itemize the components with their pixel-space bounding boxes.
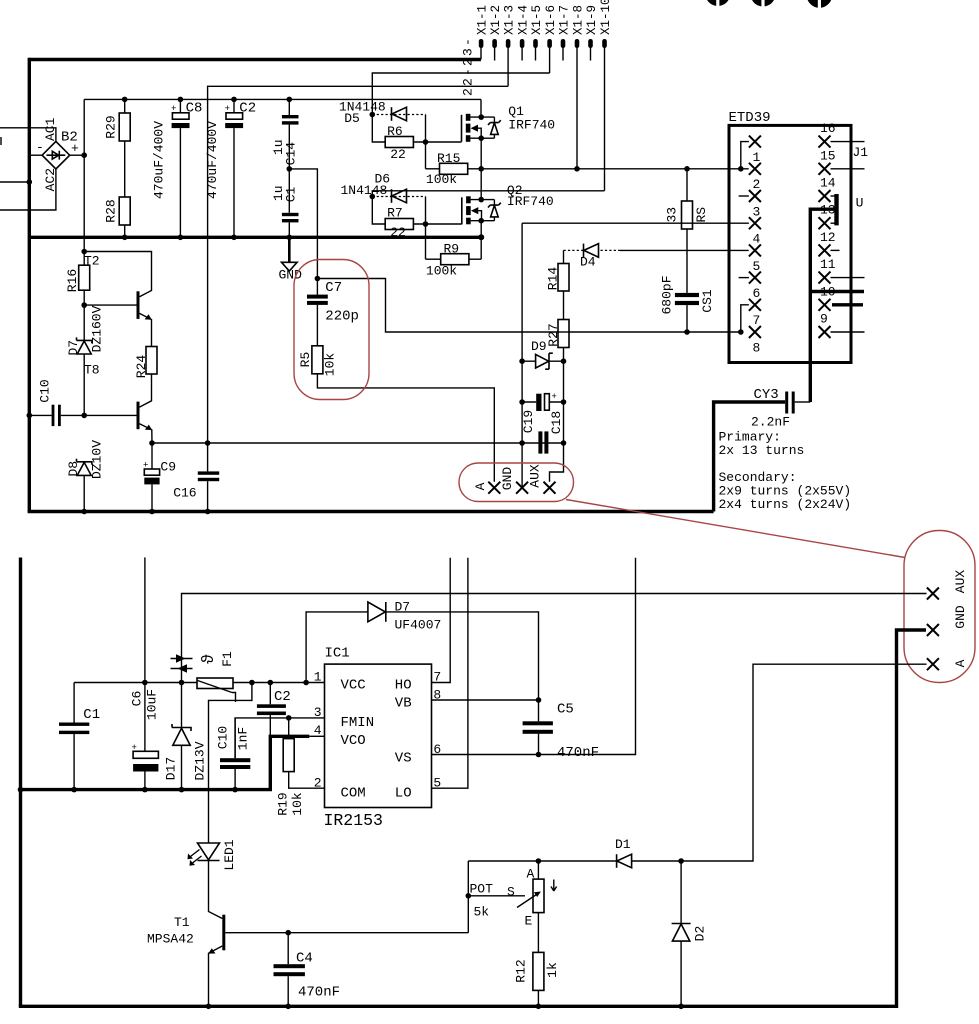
capacitor C19 bbox=[538, 431, 548, 453]
node: D8 bottom on border bbox=[81, 509, 87, 515]
node: R6 right gate node bbox=[423, 139, 429, 145]
wire: dotted D5 row bbox=[372, 114, 425, 116]
resistor R6 bbox=[385, 137, 413, 148]
capacitor C5 bbox=[523, 700, 553, 755]
svg-text:C14: C14 bbox=[283, 142, 298, 166]
pin AUX (top section) bbox=[544, 482, 556, 494]
zener diode D8 DZ10V bbox=[77, 459, 92, 512]
transformer secondary pin 14 bbox=[819, 190, 837, 202]
node: C6 top bbox=[142, 680, 148, 686]
svg-text:8: 8 bbox=[753, 340, 761, 355]
svg-text:R5: R5 bbox=[298, 352, 313, 368]
node: C14/C1 midpoint bbox=[287, 166, 293, 172]
wire: left input to border junction bbox=[0, 181, 29, 183]
transformer pin 5 bbox=[749, 244, 761, 256]
svg-text:VS: VS bbox=[395, 751, 412, 767]
wire: pin 4 to X1-4 net bbox=[522, 222, 749, 224]
svg-text:DZ13V: DZ13V bbox=[192, 741, 207, 780]
svg-text:R9: R9 bbox=[444, 242, 460, 257]
pin X1-1 bbox=[479, 39, 484, 48]
resistor RS bbox=[682, 169, 693, 293]
wire: thick GND output from center tap bbox=[810, 290, 864, 293]
node: C18 left bbox=[519, 399, 525, 405]
transformer secondary pin 9 bbox=[819, 326, 865, 338]
pin X1-7 bbox=[561, 39, 566, 48]
svg-text:U: U bbox=[856, 196, 864, 211]
svg-text:AC2: AC2 bbox=[43, 168, 58, 191]
svg-text:R16: R16 bbox=[65, 269, 80, 292]
svg-text:X1-2: X1-2 bbox=[489, 5, 503, 35]
svg-text:C5: C5 bbox=[557, 702, 574, 718]
node: D9 right bbox=[561, 358, 567, 364]
capacitor C10 1nF bbox=[220, 718, 250, 790]
capacitor C4 bbox=[274, 933, 305, 1007]
svg-text:F1: F1 bbox=[220, 651, 235, 667]
svg-text:AUX: AUX bbox=[527, 464, 542, 488]
svg-text:DZ10V: DZ10V bbox=[89, 440, 104, 479]
svg-text:D5: D5 bbox=[344, 111, 360, 126]
wire: T2 branch from B2+ vertical bbox=[81, 249, 87, 255]
svg-text:2x4 turns (2x24V): 2x4 turns (2x24V) bbox=[719, 497, 852, 512]
wire: dotted D6 row bbox=[372, 196, 425, 198]
transformer secondary pin 10 bbox=[819, 299, 864, 311]
svg-text:3: 3 bbox=[314, 705, 322, 720]
wire: pot wiper S bbox=[468, 895, 525, 897]
node: T8 emitter row left bbox=[149, 440, 155, 446]
svg-text:C2: C2 bbox=[239, 101, 256, 117]
decorative cut-off icon 3 bbox=[807, 0, 833, 8]
transformer pin 6 stub bbox=[739, 272, 761, 284]
node: C8 bottom on bus bbox=[178, 235, 184, 241]
node: R12 bottom on border bbox=[536, 1004, 542, 1010]
node: R15 right on half-bridge bbox=[478, 166, 484, 172]
svg-text:D7: D7 bbox=[66, 340, 81, 356]
node: D7 anode junction bbox=[303, 680, 309, 686]
svg-text:33: 33 bbox=[664, 207, 679, 223]
svg-text:ETD39: ETD39 bbox=[729, 110, 771, 126]
node: Q2 source bbox=[478, 218, 484, 224]
svg-text:D1: D1 bbox=[615, 837, 631, 852]
wire: AC2 input from left edge bbox=[0, 169, 56, 210]
diode D1 bbox=[617, 854, 682, 868]
svg-text:X1-1: X1-1 bbox=[476, 5, 490, 35]
pin A (top section) bbox=[488, 482, 500, 494]
transistor Q1 IRF740 bbox=[462, 114, 501, 142]
node: C1 bottom on bus bbox=[287, 235, 293, 241]
svg-text:+: + bbox=[171, 104, 176, 114]
capacitor C16 bbox=[198, 443, 219, 512]
wire: LED feed bbox=[209, 683, 252, 844]
svg-text:D9: D9 bbox=[531, 339, 547, 354]
capacitor C8 electrolytic bbox=[171, 99, 190, 237]
node: D17 bottom on bus bbox=[179, 787, 185, 793]
svg-text:GND: GND bbox=[953, 605, 968, 629]
svg-text:D17: D17 bbox=[164, 757, 179, 780]
node: Q2 source on bus bbox=[478, 234, 484, 240]
node: pin7/8 junction bbox=[738, 329, 744, 335]
wire: VCC rail bbox=[74, 682, 324, 684]
wire: C7 node to pin7/8 rail jog bbox=[317, 279, 740, 333]
node: R16 bottom base node bbox=[81, 302, 87, 308]
svg-text:10uF: 10uF bbox=[145, 689, 160, 720]
node: C8 top bbox=[178, 97, 184, 103]
resistor R14 bbox=[558, 250, 569, 319]
svg-text:2x 13 turns: 2x 13 turns bbox=[719, 443, 805, 458]
svg-text:220p: 220p bbox=[325, 309, 359, 325]
svg-text:R24: R24 bbox=[134, 355, 149, 379]
svg-text:1: 1 bbox=[314, 670, 322, 685]
node: RS top on mid rail bbox=[684, 166, 690, 172]
diode D2 bbox=[672, 861, 691, 1006]
node: D9 left bbox=[519, 358, 525, 364]
pin X1-10 bbox=[602, 39, 607, 48]
svg-text:1: 1 bbox=[753, 150, 761, 165]
wire: R6 right to junction and Q1 gate bbox=[413, 141, 461, 143]
node: AC line input stub tick bbox=[0, 137, 2, 145]
svg-text:X1-5: X1-5 bbox=[530, 5, 544, 35]
transformer secondary pin 15 bbox=[819, 163, 865, 175]
svg-text:CY3: CY3 bbox=[754, 387, 779, 403]
svg-text:22: 22 bbox=[390, 147, 406, 162]
pin GND (bottom connector) bbox=[927, 624, 939, 636]
wire: center tap thick bar pins 13/14 bbox=[834, 194, 838, 225]
node: Q1 source bbox=[478, 135, 484, 141]
svg-text:LED1: LED1 bbox=[222, 839, 237, 870]
wire: C18 aux vertical bbox=[563, 361, 565, 443]
resistor R19 bbox=[283, 718, 324, 788]
node: C9 bottom on border bbox=[149, 509, 155, 515]
node: D17 top junction bbox=[179, 680, 185, 686]
svg-text:POT: POT bbox=[470, 882, 494, 897]
node: C7 top junction bbox=[315, 276, 321, 282]
svg-text:R14: R14 bbox=[545, 267, 560, 291]
capacitor C18 electrolytic bbox=[522, 392, 563, 411]
node: pot S junction bbox=[466, 893, 472, 899]
svg-text:X1-3: X1-3 bbox=[503, 5, 517, 35]
svg-text:11: 11 bbox=[820, 257, 836, 272]
svg-text:IC1: IC1 bbox=[325, 646, 350, 662]
svg-text:1nF: 1nF bbox=[235, 727, 250, 750]
transformer secondary pin 13 bbox=[819, 217, 837, 229]
node: C16 bottom on border bbox=[205, 509, 211, 515]
svg-text:+: + bbox=[552, 392, 557, 402]
node: C2 bottom on bus bbox=[231, 235, 237, 241]
capacitor C6 electrolytic bbox=[132, 683, 159, 790]
svg-text:AUX: AUX bbox=[953, 570, 968, 594]
svg-text:X1-9: X1-9 bbox=[585, 5, 599, 35]
pin X1-2 bbox=[492, 39, 497, 48]
node: VB junction bbox=[536, 697, 542, 703]
wire: AC1 input from left edge bbox=[0, 128, 56, 142]
capacitor C10 bbox=[29, 405, 84, 426]
diode D7 UF4007 bbox=[368, 602, 386, 622]
wire: B2 minus to left border bbox=[29, 154, 42, 156]
svg-text:2.2nF: 2.2nF bbox=[751, 415, 790, 430]
node: R19 top junction bbox=[286, 715, 292, 721]
svg-text:C1: C1 bbox=[283, 187, 298, 203]
svg-text:X1-8: X1-8 bbox=[572, 5, 586, 35]
svg-text:C16: C16 bbox=[173, 486, 196, 501]
svg-text:VB: VB bbox=[395, 696, 412, 712]
wire: D5 left vertical to R6 bbox=[372, 115, 385, 143]
svg-text:X1-6: X1-6 bbox=[544, 5, 558, 35]
svg-text:VCC: VCC bbox=[341, 678, 366, 694]
svg-text:ϑ: ϑ bbox=[200, 654, 219, 664]
svg-text:R6: R6 bbox=[387, 124, 403, 139]
svg-text:1N4148: 1N4148 bbox=[341, 183, 388, 198]
node: Q2 drain bbox=[478, 197, 484, 203]
svg-text:A: A bbox=[953, 659, 968, 667]
svg-text:X1-10: X1-10 bbox=[599, 0, 613, 35]
transformer primary pin 2 bbox=[749, 163, 761, 175]
transformer ETD39 box bbox=[729, 125, 851, 362]
svg-text:12: 12 bbox=[820, 230, 836, 245]
svg-text:4: 4 bbox=[753, 232, 761, 247]
node: C10 right junction bbox=[81, 413, 87, 419]
wire: base node to T2 base bbox=[84, 304, 136, 306]
svg-text:470nF: 470nF bbox=[557, 745, 599, 761]
resistor R9 bbox=[426, 254, 482, 265]
resistor R28 bbox=[119, 197, 130, 237]
svg-text:100k: 100k bbox=[426, 264, 457, 279]
svg-text:UF4007: UF4007 bbox=[395, 618, 442, 633]
connector mating arrows bbox=[171, 654, 193, 673]
transformer pin 7 bbox=[741, 299, 761, 332]
svg-text:2: 2 bbox=[753, 177, 761, 192]
svg-text:15: 15 bbox=[820, 148, 836, 163]
svg-text:R27: R27 bbox=[546, 323, 561, 346]
svg-text:9: 9 bbox=[820, 312, 828, 327]
svg-text:RS: RS bbox=[694, 207, 709, 223]
wire: top section thick +HV top bus bbox=[29, 58, 481, 61]
ground symbol GND bbox=[282, 238, 298, 271]
wire: half-bridge mid rail to transformer bbox=[481, 168, 749, 170]
svg-text:R12: R12 bbox=[513, 959, 528, 982]
zener diode D17 DZ13V bbox=[172, 683, 191, 790]
svg-text:C4: C4 bbox=[296, 951, 313, 967]
resistor R27 bbox=[558, 320, 569, 362]
svg-text:C7: C7 bbox=[325, 280, 342, 296]
node: R28 bottom on bus bbox=[122, 235, 128, 241]
node: C14 top bbox=[287, 97, 293, 103]
node: VS at C5 bbox=[536, 752, 542, 758]
zener diode D7 DZ160V bbox=[77, 337, 92, 354]
wire: Q2 source to GND bus bbox=[480, 221, 482, 260]
wire: AUX pin drop bbox=[550, 443, 564, 482]
transistor T8 bbox=[138, 402, 152, 443]
capacitor CS1 bbox=[675, 293, 699, 332]
svg-text:+: + bbox=[143, 461, 148, 471]
node: CS1 bottom on rail bbox=[684, 329, 690, 335]
svg-text:IRF740: IRF740 bbox=[508, 118, 555, 133]
svg-text:D4: D4 bbox=[580, 255, 596, 270]
wire: AUX line from connector bbox=[182, 594, 927, 683]
wire: LO output bbox=[432, 558, 468, 788]
wire: X1-6 to D5 gate drive rail bbox=[372, 73, 549, 115]
wire: aux feed stub bbox=[144, 557, 146, 683]
node: C1 bottom on bus bbox=[71, 787, 77, 793]
wire: D7 anode riser bbox=[306, 612, 368, 683]
resistor R12 bbox=[533, 952, 544, 1006]
wire: center tap thick branch bbox=[810, 209, 838, 402]
svg-text:VCO: VCO bbox=[341, 733, 366, 749]
svg-text:FMIN: FMIN bbox=[341, 715, 375, 731]
svg-text:680pF: 680pF bbox=[659, 275, 674, 314]
svg-text:7: 7 bbox=[753, 313, 761, 328]
svg-text:3: 3 bbox=[753, 204, 761, 219]
wire: B2 plus to HV node bbox=[70, 154, 85, 156]
transformer secondary pin 11 bbox=[819, 272, 865, 284]
node: C2 top bbox=[231, 97, 237, 103]
node: C19 left bbox=[519, 440, 525, 446]
svg-text:10: 10 bbox=[820, 284, 836, 299]
svg-text:R15: R15 bbox=[437, 151, 460, 166]
pin X1-6 bbox=[547, 39, 552, 48]
node: D2 bottom on border bbox=[678, 1004, 684, 1010]
pin A (bottom connector) bbox=[927, 658, 939, 670]
wire: D7 to C10 node bbox=[83, 354, 85, 415]
wire: LED to T1 collector bbox=[209, 861, 223, 919]
wire: emitter row C9 C16 C19 bbox=[152, 442, 563, 444]
IC IR2153 IC1 bbox=[325, 664, 432, 807]
svg-text:C19: C19 bbox=[521, 410, 536, 433]
wire: T2 collector loop bbox=[84, 252, 151, 297]
node: D6 junction bbox=[370, 194, 376, 200]
pin GND (top section) bbox=[516, 482, 528, 494]
wire: A node row bbox=[468, 860, 616, 862]
transformer pin 4 bbox=[749, 217, 761, 229]
svg-text:10k: 10k bbox=[290, 792, 305, 816]
svg-text:IRF740: IRF740 bbox=[507, 194, 554, 209]
node: pin1/2 junction bbox=[738, 166, 744, 172]
pin X1-8 bbox=[575, 39, 580, 48]
svg-text:LO: LO bbox=[395, 786, 412, 802]
wire: A line to connector bbox=[681, 664, 926, 861]
wire: VS line bbox=[432, 558, 636, 755]
node: C10 bottom on bus bbox=[232, 787, 238, 793]
annotation: red ring around C7/R5 bbox=[294, 260, 369, 400]
bridge rectifier B2 bbox=[42, 141, 70, 169]
node: C2 top bbox=[268, 680, 274, 686]
svg-text:DZ160V: DZ160V bbox=[89, 305, 104, 352]
svg-text:4: 4 bbox=[314, 723, 322, 738]
resistor R5 bbox=[312, 346, 494, 482]
svg-text:AC1: AC1 bbox=[43, 117, 58, 141]
resistor R16 bbox=[79, 252, 90, 341]
svg-text:2: 2 bbox=[314, 776, 322, 791]
wire: bottom section thick GND riser to connector bbox=[897, 630, 927, 1008]
svg-text:1k: 1k bbox=[545, 962, 560, 978]
capacitor C2 (driver) bbox=[257, 683, 286, 737]
svg-text:IR2153: IR2153 bbox=[324, 811, 383, 830]
svg-text:COM: COM bbox=[341, 786, 366, 802]
wire: X1-3 rail to C16 bbox=[208, 86, 509, 443]
wire: D6 left vertical to R7 bbox=[372, 197, 385, 225]
svg-text:GND: GND bbox=[500, 467, 515, 491]
wire: VB line bbox=[432, 699, 539, 701]
node: C4 top junction bbox=[285, 930, 291, 936]
svg-text:X1-7: X1-7 bbox=[558, 5, 572, 35]
node: X1-8 on mid rail bbox=[574, 166, 580, 172]
svg-text:C2: C2 bbox=[274, 689, 291, 705]
diode D6 1N4148 bbox=[392, 189, 407, 203]
wire: X1-10 to D6 gate drive rail bbox=[372, 191, 604, 197]
wire: bottom GND bus bbox=[21, 736, 310, 789]
wire: rail overlay through R27 body bbox=[557, 331, 570, 333]
svg-text:C1: C1 bbox=[83, 707, 100, 723]
node: C4 bottom on border bbox=[285, 1004, 291, 1010]
capacitor CY3 bbox=[714, 392, 811, 512]
wire: HV rail corner down to Q1 drain bbox=[480, 99, 482, 117]
node: R29 top bbox=[122, 97, 128, 103]
transistor T2 bbox=[138, 291, 152, 346]
wire: X1-4 net vertical bbox=[521, 223, 523, 488]
svg-text:E: E bbox=[525, 914, 533, 929]
connector X1 pins bbox=[479, 39, 607, 191]
annotation: red ring bottom connector bbox=[904, 531, 975, 683]
svg-text:D2: D2 bbox=[692, 926, 707, 942]
transformer secondary pin 16 bbox=[819, 136, 865, 148]
svg-text:S: S bbox=[507, 885, 515, 900]
wire: bottom section thick left border bbox=[19, 558, 22, 1007]
potentiometer POT 5k bbox=[517, 861, 557, 952]
svg-text:C10: C10 bbox=[37, 379, 52, 402]
node: C6 bottom on bus bbox=[142, 787, 148, 793]
svg-text:C18: C18 bbox=[549, 411, 564, 434]
svg-text:J1: J1 bbox=[853, 145, 869, 160]
transformer pin 3 stub bbox=[739, 190, 761, 202]
wire: bottom section thick bottom border bbox=[19, 1005, 897, 1008]
svg-text:T1: T1 bbox=[174, 915, 190, 930]
capacitor C2 electrolytic bbox=[225, 99, 243, 237]
svg-text:+: + bbox=[132, 743, 137, 753]
svg-text:10k: 10k bbox=[322, 353, 337, 377]
transformer pin 8 bbox=[749, 326, 761, 338]
svg-text:14: 14 bbox=[820, 176, 836, 191]
wire: VCO pin lead bbox=[309, 735, 324, 737]
wire: HO output bbox=[432, 558, 451, 683]
svg-text:16: 16 bbox=[820, 121, 836, 136]
svg-text:R29: R29 bbox=[103, 115, 118, 138]
resistor R7 bbox=[385, 219, 413, 230]
wire: top section thick mid GND bus bbox=[29, 236, 481, 239]
node: C10 left on border bbox=[27, 413, 33, 419]
svg-text:6: 6 bbox=[753, 286, 761, 301]
svg-text:D8: D8 bbox=[66, 461, 81, 477]
diode D5 1N4148 bbox=[392, 107, 407, 121]
node: C18 right bbox=[561, 399, 567, 405]
resistor R29 bbox=[119, 99, 130, 197]
svg-text:R7: R7 bbox=[387, 206, 403, 221]
node: T1 emitter on border bbox=[206, 1004, 212, 1010]
node: bus on left border bbox=[18, 787, 24, 793]
decorative cut-off icon 1 bbox=[705, 0, 730, 7]
svg-text:100k: 100k bbox=[426, 172, 457, 187]
wire: top section thick bottom border bbox=[28, 510, 714, 513]
svg-text:22: 22 bbox=[390, 225, 406, 240]
pin AUX (bottom connector) bbox=[927, 588, 939, 600]
svg-text:+: + bbox=[71, 141, 79, 156]
svg-text:T8: T8 bbox=[84, 363, 100, 378]
node: C16 top bbox=[205, 440, 211, 446]
transformer secondary pin 12 stub bbox=[819, 244, 840, 256]
svg-text:C10: C10 bbox=[215, 726, 230, 749]
wire: T8 base wire bbox=[84, 414, 136, 416]
node: R7 right gate node bbox=[423, 221, 429, 227]
node: pot A junction bbox=[536, 858, 542, 864]
resistor R15 bbox=[426, 163, 482, 174]
diode D4 bbox=[564, 244, 749, 258]
